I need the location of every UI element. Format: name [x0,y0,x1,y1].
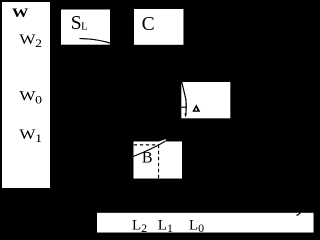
bar L (bottom long box) [97,213,314,233]
svg-text:C: C [142,14,155,35]
svg-text:W: W [12,6,29,20]
dashed horizontal line in B box [134,144,159,146]
arrowhead of arc [184,113,187,117]
dashed vertical line in B box [158,145,160,179]
box C [134,9,183,45]
svg-text:L0: L0 [189,218,204,236]
box B [133,141,182,178]
tick in Delta box [181,106,186,108]
level line in SL box [79,39,110,44]
svg-text:B: B [142,150,153,167]
arc in Delta box [182,82,187,117]
svg-text:L2: L2 [132,218,147,236]
curve through B box [133,142,164,157]
label Delta [192,104,200,111]
box W (tall left memory box) [2,2,50,188]
curve continuation above B box (white) [160,140,167,142]
box Delta [181,82,230,118]
notch on bar [297,213,301,216]
box SL [61,10,110,45]
svg-text:L1: L1 [158,218,173,236]
